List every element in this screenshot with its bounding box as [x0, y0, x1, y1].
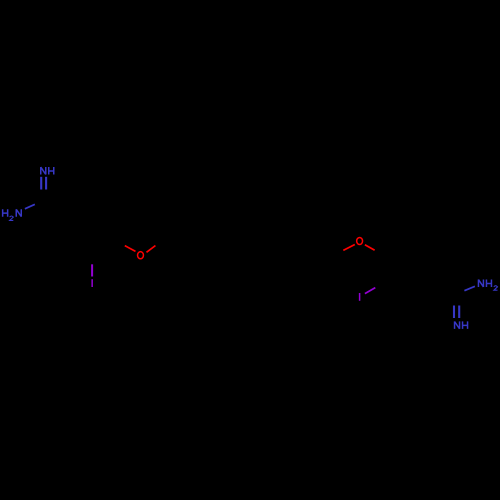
atom label O (left ether oxygen) — [138, 252, 144, 259]
bond chain-O right, black C-half — [338, 250, 344, 255]
atom label I (right iodine) — [359, 293, 361, 301]
bond chain-O right, red O-half — [343, 245, 355, 251]
bond ring-O left, black C-half — [114, 240, 125, 246]
bond O-ring right, red O-half — [365, 245, 375, 251]
double bond C=NH right, blue N-half — [454, 306, 459, 319]
atom label NH (right imine nitrogen) — [455, 321, 468, 329]
bond amidine C to ring ipso carbon (black) — [44, 202, 68, 216]
bond ring to amidine C right (black) — [432, 281, 456, 295]
bond O-chain left, red O-half — [147, 246, 156, 253]
bond ring-I left, purple I-half — [91, 264, 93, 276]
bond ring-I right, black C-half — [375, 282, 385, 288]
atom label O (right ether oxygen) — [357, 237, 363, 244]
bond O-chain left, black C-half — [156, 240, 167, 245]
atom label H2N (left amine nitrogen) — [3, 209, 22, 220]
double bond C=NH left, black C-half — [41, 190, 46, 202]
left benzene ring (black) — [68, 202, 114, 253]
atom label I (left iodine) — [91, 279, 93, 287]
atom label NH (left imine nitrogen) — [41, 167, 54, 175]
double bond C=NH right, black C-half — [454, 296, 459, 306]
single bond C-NH2 right, black C-half — [457, 291, 465, 296]
octamethylene chain (black) — [166, 240, 337, 255]
right ring inner aromatic lines (black) — [388, 247, 428, 290]
atom label NH2 (right amine nitrogen) — [478, 280, 497, 291]
bond ring-I right, purple I-half — [365, 288, 375, 294]
double bond C=NH left, blue N-half — [41, 177, 46, 190]
bond ring-I left, black C-half — [91, 253, 93, 264]
bond ring-O left, red O-half — [125, 246, 136, 252]
single bond C-NH2 left, black C-half — [35, 202, 44, 205]
single bond C-NH2 right, blue N-half — [464, 286, 475, 290]
single bond C-NH2 left, blue N-half — [25, 204, 35, 209]
right benzene ring (black) — [384, 242, 432, 295]
bond O-ring right, black C-half — [375, 250, 384, 255]
left ring inner aromatic lines (black) — [72, 207, 110, 249]
